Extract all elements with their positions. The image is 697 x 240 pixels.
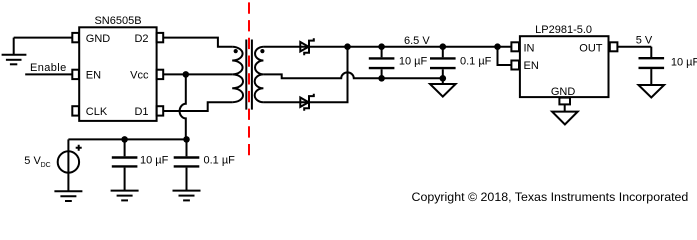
capacitor C4 bottom stem — [442, 69, 444, 78]
capacitor C2 stem bottom — [186, 168, 188, 191]
pin CLK (pin square) — [72, 106, 79, 115]
wire Vcc to transformer center tap — [163, 73, 232, 75]
op-amp U2 LP2981-5.0 body — [520, 36, 609, 97]
capacitor C4 0.1uF top stem — [442, 47, 444, 58]
pin GND (pin square) — [559, 98, 570, 105]
svg-text:D2: D2 — [134, 33, 148, 45]
pin EN (pin square) — [72, 70, 79, 79]
svg-text:6.5 V: 6.5 V — [404, 35, 430, 47]
ground (triangle) secondary return — [430, 78, 456, 96]
pin D2 (pin square) — [157, 33, 164, 42]
wire GND pin to ground — [564, 104, 566, 111]
svg-text:EN: EN — [524, 60, 539, 72]
capacitor C4 plates — [430, 58, 456, 68]
wire Enable to EN pin — [25, 73, 72, 75]
svg-text:5 V: 5 V — [24, 155, 41, 167]
wire EN branch — [498, 47, 512, 65]
transformer secondary polarity dot — [260, 49, 264, 53]
svg-text:0.1 µF: 0.1 µF — [460, 56, 492, 68]
capacitor C1 plates — [112, 158, 138, 167]
ground (earth) under V1 — [54, 191, 82, 201]
capacitor C1 10uF stem top — [124, 139, 126, 156]
wire Vcc junction down to bottom rail (hops over D1 wire) — [180, 74, 186, 139]
capacitor C3 plates — [369, 58, 395, 68]
node Vcc junction — [183, 71, 190, 78]
wire secondary bottom through diode up to rail — [263, 47, 347, 102]
transformer T1 primary winding — [232, 47, 243, 102]
wire D1 to transformer primary bottom — [163, 102, 232, 111]
capacitor C2 0.1uF stem top — [186, 139, 188, 156]
svg-text:D1: D1 — [134, 106, 148, 118]
transformer primary polarity dot — [234, 49, 238, 53]
wire OUT to output cap — [617, 46, 651, 48]
wire bottom supply rail — [68, 138, 186, 140]
capacitor C1 stem bottom — [124, 168, 126, 191]
svg-text:IN: IN — [524, 43, 535, 55]
pin IN (pin square) — [511, 42, 519, 51]
svg-text:DC: DC — [41, 162, 51, 169]
svg-text:Vcc: Vcc — [130, 70, 149, 82]
capacitor C5 10uF top stem — [650, 47, 652, 58]
voltage source V1 5VDC — [58, 139, 82, 191]
svg-text:0.1 µF: 0.1 µF — [204, 155, 236, 167]
node IN/EN junction — [494, 43, 501, 50]
diode D3 (Schottky) triangle — [300, 42, 308, 51]
svg-text:GND: GND — [551, 86, 576, 98]
wire secondary top to IN pin (6.5V rail) — [263, 46, 511, 48]
transformer core line right — [251, 40, 253, 110]
capacitor C5 bottom stem — [650, 69, 652, 85]
node junction rectifier output — [344, 43, 351, 50]
diode D4 (Schottky) triangle — [300, 98, 308, 107]
svg-text:OUT: OUT — [579, 43, 603, 55]
ground (triangle) output — [639, 85, 665, 98]
pin EN (pin square) — [511, 61, 519, 70]
capacitor C5 plates — [639, 58, 665, 68]
pin D1 (pin square) — [157, 106, 164, 115]
capacitor C3 bottom stem — [381, 69, 383, 78]
node rail-C1 junction — [121, 136, 128, 143]
svg-text:SN6505B: SN6505B — [94, 15, 141, 27]
diode D4 cathode bar with schottky hooks — [304, 94, 314, 111]
node C4 top junction — [440, 43, 447, 50]
capacitor C3 10uF top stem — [381, 47, 383, 58]
ground (triangle) LP2981 GND — [552, 112, 578, 125]
wire D2 to transformer primary top — [163, 38, 232, 47]
node rail-C2 junction — [183, 136, 190, 143]
svg-text:5 V: 5 V — [636, 35, 653, 47]
isolation barrier (red dashed line) — [248, 2, 250, 157]
ground (earth) under C2 — [173, 191, 201, 201]
wire secondary center tap to return rail (steps down, hops over vertical) — [263, 72, 442, 78]
transformer T1 secondary winding — [255, 47, 264, 102]
svg-text:Enable: Enable — [30, 62, 67, 74]
node C3 bottom junction — [378, 75, 385, 82]
capacitor C2 plates — [174, 158, 200, 167]
op-amp U1 SN6505B body — [79, 27, 156, 121]
ground (earth) top-left — [2, 38, 27, 65]
node C3 top junction — [378, 43, 385, 50]
node C4 bottom junction — [440, 75, 447, 82]
svg-text:10 µF: 10 µF — [140, 155, 169, 167]
pin Vcc (pin square) — [157, 70, 164, 79]
svg-text:10 µF: 10 µF — [671, 56, 697, 68]
ground (earth) under C1 — [111, 191, 139, 201]
svg-text:GND: GND — [86, 33, 111, 45]
diode D3 cathode bar with schottky hooks — [304, 38, 314, 55]
wire GND pin to ground — [14, 37, 72, 39]
svg-text:Copyright © 2018, Texas Instru: Copyright © 2018, Texas Instruments Inco… — [412, 190, 689, 204]
pin OUT (pin square) — [610, 42, 618, 51]
svg-text:10 µF: 10 µF — [399, 56, 428, 68]
svg-text:EN: EN — [86, 70, 101, 82]
svg-text:CLK: CLK — [86, 106, 108, 118]
pin GND (pin square) — [72, 33, 79, 42]
transformer core line left — [245, 40, 247, 110]
svg-text:LP2981-5.0: LP2981-5.0 — [535, 24, 592, 36]
